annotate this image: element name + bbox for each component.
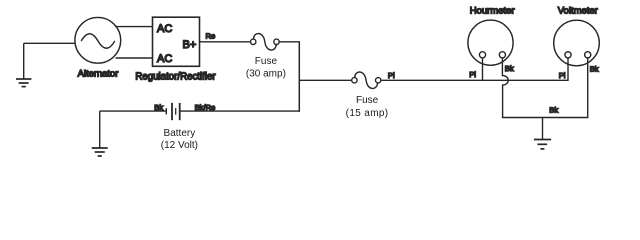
svg-text:Hourmeter: Hourmeter xyxy=(470,6,515,17)
svg-text:Re: Re xyxy=(206,32,216,41)
svg-text:Battery: Battery xyxy=(164,128,196,139)
regulator/rectifier U1 box xyxy=(153,17,200,66)
alternator G1 xyxy=(75,17,121,63)
wire voltmeter Pi terminal drop xyxy=(567,58,569,81)
svg-text:Bk: Bk xyxy=(590,64,599,73)
svg-text:AC: AC xyxy=(157,53,172,65)
wire node to fuse F2 xyxy=(299,79,352,81)
ground (meters) xyxy=(534,118,551,149)
fuse F1 30 amp xyxy=(251,34,280,51)
wire vertical node to battery net xyxy=(298,42,300,112)
svg-text:Bk: Bk xyxy=(154,103,163,112)
svg-text:Bk/Re: Bk/Re xyxy=(195,103,216,112)
svg-text:B+: B+ xyxy=(183,39,197,51)
wire Bk bus (hourmeter to voltmeter) xyxy=(502,117,589,119)
ground (battery) xyxy=(92,111,108,156)
hourmeter M1 xyxy=(468,20,513,65)
svg-text:Pi: Pi xyxy=(559,71,566,80)
wire fuse F1 to corner node xyxy=(279,41,300,43)
label Battery (12 Volt) xyxy=(161,128,198,151)
fuse F2 15 amp xyxy=(352,72,381,89)
label Fuse (15 amp) xyxy=(346,95,389,119)
svg-text:Pi: Pi xyxy=(469,70,476,79)
wire AC top (alternator to regulator) xyxy=(116,26,153,28)
svg-text:Voltmeter: Voltmeter xyxy=(558,6,598,17)
wire alternator to ground xyxy=(24,42,75,44)
svg-text:Bk: Bk xyxy=(549,106,558,115)
battery BT1 (12 Volt) xyxy=(166,103,179,120)
svg-text:(30 amp): (30 amp) xyxy=(246,69,286,80)
ground (alternator chassis) xyxy=(16,43,31,86)
wire battery positive to node (net Bk/Re) xyxy=(181,110,301,112)
wire Pi bus (fuse F2 to voltmeter) xyxy=(381,79,568,81)
svg-text:AC: AC xyxy=(157,23,172,35)
svg-text:(12 Volt): (12 Volt) xyxy=(161,140,198,151)
wire ground to battery negative xyxy=(100,110,166,112)
svg-text:Alternator: Alternator xyxy=(78,67,119,78)
svg-text:Fuse: Fuse xyxy=(255,56,278,67)
label Fuse (30 amp) xyxy=(246,56,286,80)
svg-text:Fuse: Fuse xyxy=(356,95,379,106)
svg-text:Pi: Pi xyxy=(388,71,395,80)
wire hourmeter Pi terminal drop xyxy=(482,58,484,80)
wire B+ to fuse F1 (net Re) xyxy=(200,41,251,43)
wire voltmeter Bk terminal drop xyxy=(587,58,589,118)
svg-text:Bk: Bk xyxy=(505,64,514,73)
wire AC bottom (alternator to regulator) xyxy=(116,57,153,59)
wire hourmeter Bk terminal drop with hop over Pi bus xyxy=(502,58,508,118)
svg-text:Regulator/Rectifier: Regulator/Rectifier xyxy=(135,71,216,82)
voltmeter M2 xyxy=(554,20,600,66)
svg-text:(15 amp): (15 amp) xyxy=(346,108,389,119)
